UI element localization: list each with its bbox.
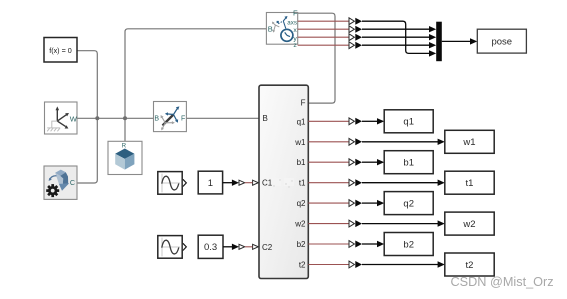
svg-text:t1: t1 (299, 179, 306, 188)
svg-text:t2: t2 (299, 261, 306, 270)
signal wire x to mux input 1 (362, 28, 430, 30)
red PS wire q2 (308, 202, 349, 204)
signal wire to w2 (362, 223, 438, 225)
signal wire to b2 (362, 243, 378, 245)
svg-text:axs: axs (287, 19, 297, 26)
Simulink-PS converter C2 (239, 244, 245, 249)
sine wave block 2 (158, 236, 187, 259)
svg-text:0.3: 0.3 (204, 242, 217, 253)
svg-text:b1: b1 (403, 158, 414, 169)
red PS wire sensor y (298, 36, 349, 38)
PS-Simulink converter z (349, 42, 362, 49)
svg-text:F: F (181, 116, 185, 123)
red PS wire sensor axs (298, 20, 349, 22)
svg-text:1: 1 (208, 178, 213, 189)
svg-text:x: x (293, 27, 297, 34)
signal wire to t2 (362, 264, 438, 266)
svg-text:b1: b1 (297, 158, 306, 167)
svg-text:q1: q1 (297, 117, 306, 126)
outport block w2 (445, 212, 494, 235)
junction J1 (95, 116, 99, 120)
wire W to Rigid Transform B (77, 117, 154, 119)
PS-Simulink converter b2 (349, 241, 362, 248)
svg-text:F: F (301, 98, 306, 107)
wire junction to brick R and up to sensor B (125, 29, 266, 142)
red PS wire converter to C1 (245, 182, 253, 184)
wire Rigid Transform F to subsystem B (186, 117, 259, 119)
outport block q1 (384, 110, 433, 133)
red PS wire t2 (308, 264, 349, 266)
red PS wire sensor x (298, 28, 349, 30)
subsystem block (259, 85, 308, 278)
red PS wire b2 (308, 243, 349, 245)
svg-text:C2: C2 (262, 243, 273, 252)
wire mux to pose (442, 40, 471, 42)
svg-text:w1: w1 (294, 138, 306, 147)
signal wire to q1 (362, 120, 378, 122)
transform sensor block (266, 9, 298, 49)
signal wire z to mux input 3 (362, 44, 430, 46)
svg-text:b2: b2 (403, 239, 414, 250)
svg-text:B: B (268, 24, 273, 33)
wire sensor F to subsystem F (298, 13, 335, 103)
svg-text:z: z (293, 42, 297, 49)
svg-text:B: B (263, 114, 268, 123)
outport block w1 (445, 130, 494, 153)
PS-Simulink converter y (349, 34, 362, 41)
mechanism configuration block (44, 166, 77, 199)
svg-text:q1: q1 (403, 117, 414, 128)
ghost text marks inside subsystem (272, 178, 294, 188)
svg-text:F: F (293, 9, 298, 18)
signal wire to w1 (362, 141, 438, 143)
signal wire to t1 (362, 182, 438, 184)
PS-Simulink converter t2 (349, 261, 362, 268)
PS-Simulink converter t1 (349, 179, 362, 186)
world frame block W (45, 102, 78, 134)
red PS wire b1 (308, 161, 349, 163)
sine wave block 1 (158, 172, 187, 195)
outport block q2 (384, 192, 433, 215)
svg-text:W: W (70, 114, 78, 123)
outport block t1 (445, 171, 494, 194)
signal wire to b1 (362, 161, 378, 163)
wire f(x)=0 F to mechanism C trunk (77, 51, 97, 183)
red PS wire t1 (308, 182, 349, 184)
svg-text:B: B (154, 116, 159, 123)
PS-Simulink converter q2 (349, 200, 362, 207)
svg-text:C: C (70, 178, 75, 187)
svg-text:t2: t2 (466, 260, 474, 271)
signal wire axs to mux input 4 (362, 21, 430, 53)
PS-Simulink converter b1 (349, 159, 362, 166)
svg-text:R: R (122, 144, 127, 150)
mux block (436, 22, 442, 62)
port triangle C1 (253, 180, 259, 185)
svg-text:q2: q2 (297, 199, 306, 208)
svg-text:b2: b2 (297, 240, 306, 249)
outport block t2 (445, 253, 494, 276)
signal wire y to mux input 2 (362, 36, 430, 38)
red PS wire sensor z (298, 44, 349, 46)
svg-text:t1: t1 (466, 178, 474, 189)
svg-text:pose: pose (491, 37, 512, 48)
svg-text:w2: w2 (462, 219, 475, 230)
PS-Simulink converter x (349, 26, 362, 33)
outport block b1 (384, 151, 433, 174)
PS-Simulink converter q1 (349, 118, 362, 125)
signal wire constant 0.3 to converter (223, 246, 232, 248)
red PS wire w2 (308, 223, 349, 225)
PS-Simulink converter w2 (349, 220, 362, 227)
rigid transform block (154, 102, 187, 132)
constant block 0.3 (198, 235, 223, 258)
red PS wire w1 (308, 141, 349, 143)
PS-Simulink converter axs (349, 18, 362, 25)
solver block f(x)=0 (44, 38, 77, 63)
outport block b2 (384, 233, 433, 256)
brick solid block (108, 141, 142, 174)
PS-Simulink converter w1 (349, 138, 362, 145)
svg-text:w1: w1 (462, 137, 475, 148)
junction J2 (123, 116, 127, 120)
svg-text:f(x) = 0: f(x) = 0 (49, 46, 72, 55)
pose outport block (477, 29, 526, 53)
constant block 1 (198, 171, 222, 194)
svg-text:q2: q2 (403, 198, 414, 209)
signal wire to q2 (362, 202, 378, 204)
svg-text:CSDN @Mist_Orz: CSDN @Mist_Orz (451, 275, 554, 289)
svg-text:C1: C1 (262, 179, 273, 188)
red PS wire q1 (308, 120, 349, 122)
red PS wire converter to C2 (245, 246, 253, 248)
port triangle C2 (253, 244, 259, 249)
svg-text:w2: w2 (294, 220, 306, 229)
Simulink-PS converter C1 (239, 180, 245, 185)
signal wire constant 1 to converter (223, 182, 233, 184)
